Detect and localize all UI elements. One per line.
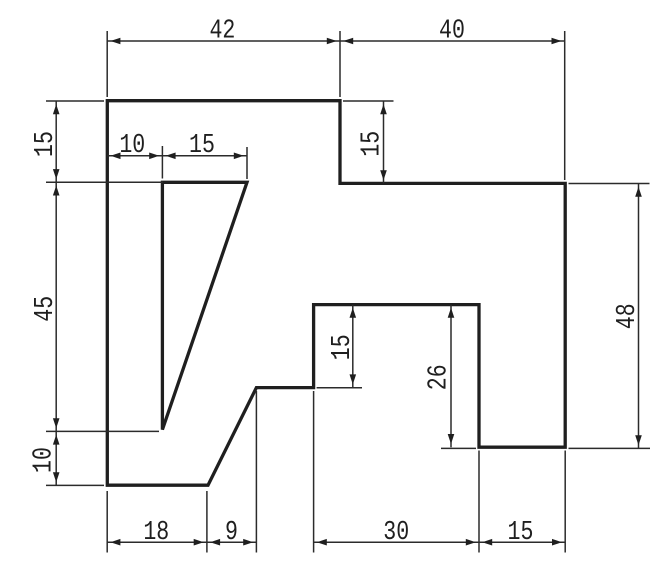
dimension line — [383, 101, 385, 183]
svg-text:18: 18 — [143, 518, 169, 548]
arrowhead left — [482, 539, 492, 546]
svg-text:30: 30 — [383, 518, 409, 548]
arrowhead right — [234, 153, 244, 160]
dimension 10 (lower left height) — [29, 431, 104, 485]
dimension line — [55, 101, 57, 182]
dimension 18 (bottom) — [107, 491, 207, 553]
dimension line — [207, 541, 257, 543]
dimension line — [638, 184, 640, 449]
svg-text:9: 9 — [225, 518, 238, 548]
arrowhead bottom — [380, 170, 387, 180]
part outline — [107, 101, 565, 486]
extension line left — [106, 491, 108, 553]
arrowhead right — [243, 539, 253, 546]
dimension 15 (middle step height) — [317, 305, 362, 388]
arrowhead top — [53, 435, 60, 445]
svg-text:15: 15 — [357, 131, 387, 157]
arrowhead top — [448, 308, 455, 318]
extension line bottom — [46, 430, 159, 432]
extension line bottom — [569, 447, 651, 449]
svg-text:15: 15 — [31, 131, 61, 157]
extension line left — [106, 31, 108, 97]
extension line right — [564, 451, 566, 553]
arrowhead top — [635, 187, 642, 197]
arrowhead bottom — [53, 169, 60, 179]
dimension 42 (top left width) — [107, 16, 340, 97]
dimension 9 (bottom) — [207, 391, 257, 553]
dimension 30 (bottom) — [314, 391, 479, 553]
arrowhead right — [552, 38, 562, 45]
svg-text:15: 15 — [328, 334, 358, 360]
arrowhead right — [327, 38, 337, 45]
dimension line — [352, 305, 354, 388]
arrowhead top — [350, 308, 357, 318]
arrowhead left — [166, 153, 176, 160]
dimension line — [55, 431, 57, 485]
arrowhead left — [110, 38, 120, 45]
arrowhead right — [194, 539, 204, 546]
arrowhead left — [343, 38, 353, 45]
svg-text:26: 26 — [424, 364, 454, 390]
extension line bottom — [441, 447, 476, 449]
arrowhead bottom — [635, 435, 642, 445]
arrowhead left — [210, 539, 220, 546]
svg-text:42: 42 — [209, 16, 235, 46]
arrowhead right — [149, 153, 159, 160]
svg-text:10: 10 — [29, 447, 59, 473]
svg-text:15: 15 — [189, 131, 215, 161]
extension line right — [206, 491, 208, 553]
extension line right — [478, 451, 480, 553]
arrowhead right — [466, 539, 476, 546]
arrowhead top — [380, 104, 387, 114]
extension line right — [339, 31, 341, 97]
svg-text:48: 48 — [613, 303, 643, 329]
dimension line — [314, 541, 479, 543]
arrowhead bottom — [53, 472, 60, 482]
extension line right — [161, 146, 163, 179]
dimension 15 (upper left height) — [31, 101, 163, 182]
svg-text:45: 45 — [31, 296, 61, 322]
dimension 26 (notch height) — [424, 305, 476, 449]
svg-text:10: 10 — [119, 131, 145, 161]
extension line right — [564, 31, 566, 180]
svg-text:15: 15 — [508, 518, 534, 548]
arrowhead bottom — [350, 374, 357, 384]
dimension 15 (cutout width) — [162, 131, 247, 179]
extension line top — [343, 100, 394, 102]
svg-text:40: 40 — [439, 16, 465, 46]
arrowhead right — [552, 539, 562, 546]
dimension 15 (top right step depth) — [343, 101, 394, 183]
extension line top — [569, 183, 650, 185]
extension line left — [313, 391, 315, 553]
extension line right — [255, 391, 257, 553]
arrowhead top — [53, 186, 60, 196]
dimension line — [450, 305, 452, 448]
arrowhead left — [111, 153, 121, 160]
extension line right — [246, 147, 248, 179]
dimension 45 (middle left height) — [31, 182, 159, 431]
arrowhead left — [317, 539, 327, 546]
extension line bottom — [46, 484, 104, 486]
dimension 10 (cutout offset) — [107, 131, 162, 179]
extension line bottom — [46, 181, 163, 183]
arrowhead top — [53, 104, 60, 114]
arrowhead bottom — [53, 418, 60, 428]
dimension 15 (bottom right) — [479, 451, 565, 553]
dimension line — [107, 40, 340, 42]
arrowhead bottom — [448, 434, 455, 444]
dimension 40 (top right width) — [340, 16, 565, 180]
dimension line — [479, 541, 565, 543]
dimension 48 (right height) — [569, 184, 651, 449]
dimension line — [55, 182, 57, 431]
dimension line — [107, 155, 162, 157]
dimension line — [162, 155, 247, 157]
arrowhead left — [110, 539, 120, 546]
triangular cutout — [162, 182, 247, 429]
extension line top — [46, 100, 104, 102]
dimension line — [340, 40, 565, 42]
extension line bottom — [317, 387, 362, 389]
dimension line — [107, 541, 207, 543]
